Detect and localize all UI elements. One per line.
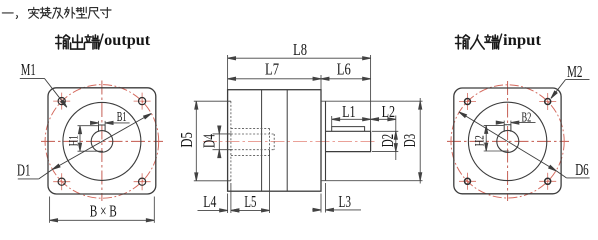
svg-text:D5: D5 <box>177 132 196 148</box>
svg-text:input: input <box>503 32 542 49</box>
hole cross marks <box>53 93 150 191</box>
centerline horizontal <box>41 140 163 142</box>
svg-text:D3: D3 <box>400 134 419 148</box>
leader D1 (bolt circle diameter) <box>18 112 152 179</box>
slash of /output <box>99 34 103 48</box>
leader M1 <box>20 78 68 108</box>
bolt hole TL <box>465 99 471 105</box>
svg-text:B1: B1 <box>117 110 127 125</box>
svg-text:L7: L7 <box>265 60 279 79</box>
dim B2 <box>496 121 535 125</box>
internal wall lines <box>261 90 263 192</box>
hidden bore inner <box>231 134 274 150</box>
hole cross marks <box>459 93 556 190</box>
dim H2 <box>484 125 509 151</box>
svg-text:L2: L2 <box>382 102 396 121</box>
input shaft <box>326 131 371 151</box>
shaft hole <box>497 130 519 152</box>
bolt hole TL <box>58 98 65 105</box>
slash of /input <box>498 34 502 48</box>
svg-text:L1: L1 <box>342 102 356 121</box>
svg-text:L8: L8 <box>293 40 307 59</box>
svg-text:L4: L4 <box>203 192 216 211</box>
svg-text:D6: D6 <box>575 160 589 179</box>
leader D6 (bolt circle diameter) <box>458 111 590 178</box>
svg-text:H1: H1 <box>66 135 80 146</box>
centerline vertical <box>101 81 103 202</box>
shaft hole <box>91 131 113 153</box>
bolt hole TR <box>545 99 551 105</box>
svg-text:D2: D2 <box>378 134 397 148</box>
dim D5 <box>194 101 231 181</box>
centerline vertical <box>507 81 509 201</box>
input boss plate <box>325 101 327 181</box>
svg-text:B2: B2 <box>522 110 532 125</box>
label 输入端/input <box>455 35 498 49</box>
svg-text:D4: D4 <box>199 134 218 148</box>
dim D4 <box>213 126 232 159</box>
bolt hole TR <box>139 98 146 105</box>
dim D3 <box>419 98 422 184</box>
body outline <box>228 90 321 192</box>
bolt hole BL <box>58 178 65 185</box>
svg-text:L3: L3 <box>339 192 352 211</box>
keyway <box>504 125 511 132</box>
centerline <box>203 140 377 142</box>
boss circle <box>468 102 546 180</box>
bolt circle <box>451 85 564 198</box>
bolt hole BR <box>545 178 551 184</box>
svg-text:B × B: B × B <box>90 202 117 221</box>
dim BxB <box>50 197 155 223</box>
svg-text:H2: H2 <box>473 135 487 146</box>
dim L7 <box>228 75 321 90</box>
bolt circle <box>45 85 159 199</box>
svg-text:L5: L5 <box>244 192 256 211</box>
svg-text:M2: M2 <box>567 62 583 81</box>
dim L6 <box>321 77 371 80</box>
shaft key <box>332 127 365 132</box>
dim L3 <box>312 183 361 213</box>
bolt hole BR <box>139 178 146 185</box>
dim L5 <box>231 150 270 213</box>
label 输出端/output <box>56 35 100 49</box>
keyway <box>99 125 106 132</box>
svg-text:output: output <box>104 32 151 49</box>
dim D2 <box>372 116 398 161</box>
dim H1 <box>78 126 104 152</box>
centerline horizontal <box>447 140 569 142</box>
hidden boss edge <box>230 101 232 181</box>
svg-text:M1: M1 <box>21 60 36 79</box>
boss circle <box>63 102 141 180</box>
dim L4 <box>198 183 240 213</box>
hidden bore outer <box>231 128 270 155</box>
leader M2 <box>550 80 590 100</box>
bolt hole BL <box>465 178 471 184</box>
flange outline <box>454 88 561 194</box>
svg-text:L6: L6 <box>337 60 351 79</box>
svg-text:D1: D1 <box>17 161 31 180</box>
dim L8 <box>228 55 371 131</box>
flange outline <box>48 88 156 194</box>
dim L2 <box>371 118 396 121</box>
dim B1 <box>90 121 129 125</box>
title 一，安装及外型尺寸 <box>2 7 111 18</box>
dim L1 <box>332 116 371 127</box>
